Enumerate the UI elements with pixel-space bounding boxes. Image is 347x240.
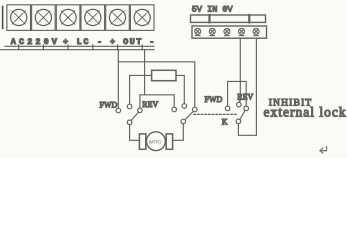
- terminal TB2-2 screw: [209, 28, 215, 35]
- switch S2 lever: [185, 111, 193, 119]
- terminal TB2-4 screw: [239, 28, 245, 35]
- svg-text:+ LC -: + LC -: [63, 37, 104, 47]
- TB2 upper strip divider 2: [248, 15, 250, 22]
- return mark: [320, 147, 327, 153]
- motor M brush left: [139, 134, 145, 149]
- motor M body: [147, 132, 166, 151]
- switch S1 contact REV: [138, 108, 143, 113]
- terminal TB1-1 screw: [11, 9, 27, 25]
- terminal block TB1 box 2: [32, 5, 56, 31]
- wire TB2-5 down: [255, 38, 257, 135]
- switch S1 contact middle: [127, 104, 132, 109]
- svg-text:5V IN 0V: 5V IN 0V: [192, 5, 234, 15]
- terminal tick 6: [141, 45, 143, 50]
- svg-text:REV: REV: [237, 93, 253, 102]
- terminal TB1-4 screw: [85, 9, 101, 25]
- wire pole S1 to motor: [130, 125, 140, 141]
- svg-text:K: K: [222, 117, 228, 126]
- switch S1 contact FWD: [116, 108, 121, 113]
- terminal tick 5: [117, 45, 119, 50]
- terminal strip TB1 end plate: [2, 7, 4, 29]
- switch K contact middle: [237, 102, 242, 107]
- switch S1 pole: [127, 120, 132, 125]
- svg-text:(MTR): (MTR): [149, 139, 162, 144]
- wire to REV contact of S2: [118, 62, 195, 107]
- motor M brush right: [166, 134, 172, 149]
- svg-text:FWD: FWD: [205, 95, 223, 104]
- terminal block TB2 lower strip: [192, 26, 267, 38]
- terminal TB2-5 screw: [253, 28, 259, 35]
- TB2 upper strip divider 1: [208, 15, 210, 22]
- mechanical link dashed line: [194, 113, 237, 115]
- switch S2 contact A: [172, 107, 177, 112]
- switch K contact REV: [244, 106, 249, 111]
- terminal block TB1 box 5: [106, 5, 130, 31]
- terminal TB1-2 screw: [35, 9, 51, 25]
- switch S2 pole: [181, 119, 186, 124]
- terminal tick 3: [67, 45, 69, 50]
- bus bar lower line: [0, 49, 154, 51]
- wire OUT- vertical: [144, 50, 146, 95]
- svg-text:external lock: external lock: [264, 104, 347, 119]
- terminal TB1-5 screw: [109, 9, 125, 25]
- wire resistor right branch: [176, 75, 184, 103]
- bus bar upper line: [5, 45, 154, 47]
- switch K contact FWD: [225, 106, 230, 111]
- terminal block TB1 box 3: [56, 5, 80, 31]
- terminal TB1-6 screw: [134, 9, 150, 25]
- terminal block TB2 upper strip: [191, 15, 266, 22]
- switch S2 contact C: [193, 107, 198, 112]
- wire K contact feed bar: [228, 81, 247, 106]
- switch S1 lever: [131, 112, 138, 120]
- wire K pole return: [238, 124, 256, 136]
- svg-text:+ OUT -: + OUT -: [110, 37, 156, 47]
- switch K lever: [240, 111, 245, 120]
- terminal TB1-3 screw: [60, 9, 76, 25]
- terminal tick 1: [18, 45, 20, 50]
- terminal block TB1 box 4: [81, 5, 105, 31]
- switch K pole: [236, 119, 241, 124]
- svg-text:REV: REV: [142, 100, 158, 109]
- terminal TB2-1 screw: [195, 28, 201, 35]
- wire resistor left branch: [130, 75, 152, 104]
- terminal block TB1 box 1: [7, 5, 31, 31]
- crossover wire S1 to S2: [140, 95, 174, 108]
- terminal TB2-3 screw: [224, 28, 230, 35]
- svg-text:FWD: FWD: [100, 100, 118, 109]
- wire motor to pole S2: [173, 124, 184, 141]
- resistor R: [152, 70, 176, 80]
- terminal block TB1 box 6: [130, 5, 154, 31]
- wire TB2-4 down to switch K: [239, 38, 241, 101]
- wire OUT+ vertical: [117, 50, 119, 108]
- switch S2 contact middle: [182, 104, 187, 109]
- terminal tick 4: [92, 45, 94, 50]
- terminal tick 2: [42, 45, 44, 50]
